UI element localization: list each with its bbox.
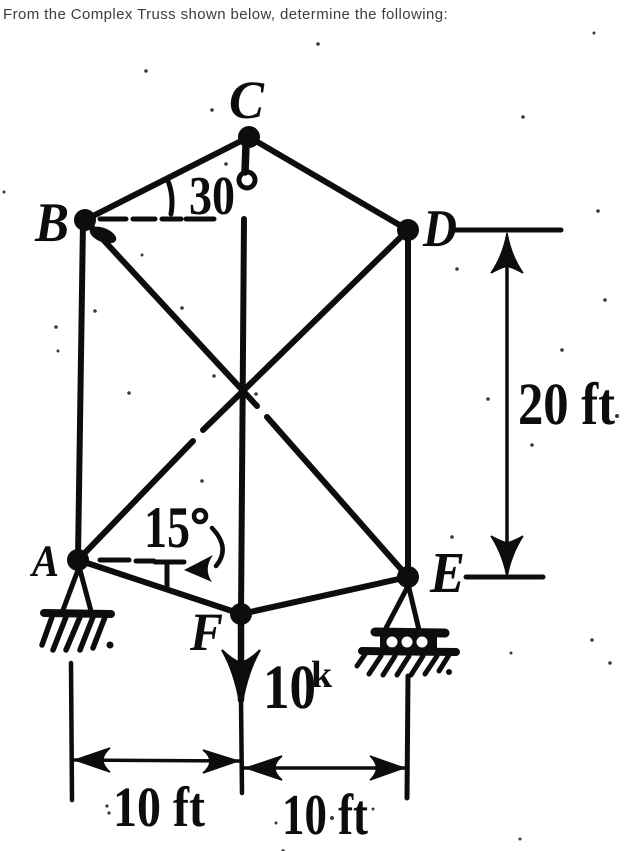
dimension extension line from E (bottom of 20 ft) [466,575,543,580]
right extension line below E [407,676,408,798]
20 ft up arrowhead [491,233,523,273]
pin support at A: hatching [42,617,105,650]
arrowhead left end pointing left [75,748,110,772]
svg-text:A: A [29,536,59,586]
svg-text:10 ft: 10 ft [282,782,369,847]
20 ft down arrowhead [491,536,523,577]
node B [74,209,96,231]
member AF (bottom left chord) [78,560,241,614]
arrowhead pointing left at centre (right span) [246,756,282,780]
member CF vertical (stub below C) [245,145,246,172]
pin support at A: left leg [63,570,78,610]
member AB (left vertical chord) [78,222,83,558]
svg-text:E: E [429,540,465,605]
right 10 ft dimension line [244,766,404,770]
node F [230,603,252,625]
header problem statement text [3,6,448,23]
svg-text:F: F [189,602,223,662]
member BE diagonal (segment below gap) [267,417,408,577]
roller support at E: ground bar [362,651,456,652]
member BC (top left chord) [85,137,249,220]
svg-text:20 ft: 20 ft [518,371,615,437]
period after A hatching [107,642,114,649]
roller support at E: left leg [386,588,407,628]
node E [397,566,419,588]
dashed reference line at B for 30 deg [100,217,214,222]
angle tick between BC and reference line [168,181,172,214]
arrowhead pointing right at centre (left span) [203,750,238,773]
node D [397,219,419,241]
curved arrow for 15 deg angle [212,528,223,566]
svg-text:D: D [422,200,457,258]
roller support at E: hatching [357,653,449,675]
svg-text:B: B [34,192,69,254]
load arrowhead 10k [222,650,260,708]
member AD diagonal (segment above gap) [203,230,408,430]
member FE (bottom right chord) [241,577,408,614]
20 ft vertical dimension line [505,238,509,572]
period after E hatching [446,669,452,675]
svg-text:15: 15 [144,494,190,560]
roller support at E: top bar [375,632,445,633]
pin support at A: base bar [44,613,111,614]
dashed reference line at A for 15 deg [100,560,154,561]
svg-text:30: 30 [189,165,235,226]
roller support at E: right leg [409,588,419,630]
member DE (right vertical chord) [405,230,411,577]
svg-text:10: 10 [263,652,316,722]
svg-text:C: C [229,70,265,130]
node A [67,549,89,571]
left 10 ft dimension line [74,760,240,761]
svg-text:k: k [311,654,333,696]
svg-text:10 ft: 10 ft [113,776,205,839]
pin support at A: right leg [80,570,91,611]
member BE diagonal (segment above gap) [85,220,257,406]
dimension extension line from D (top of 20 ft) [452,228,561,233]
member CF vertical (main run to F) [241,219,244,614]
roller support at E: roller band [380,636,437,648]
member CD (top right chord) [249,137,408,230]
left extension line below A [71,663,72,800]
degree ring of 15 [194,510,206,522]
degree ring of 30 [239,172,255,188]
node C [238,126,260,148]
perpendicular T mark on reference line [155,560,184,565]
arrowhead right end pointing right [370,756,404,780]
load line below F [238,614,245,700]
roller white circles [387,637,428,648]
member AD diagonal (segment below gap) [78,441,193,560]
ink smudge below B [87,223,118,246]
